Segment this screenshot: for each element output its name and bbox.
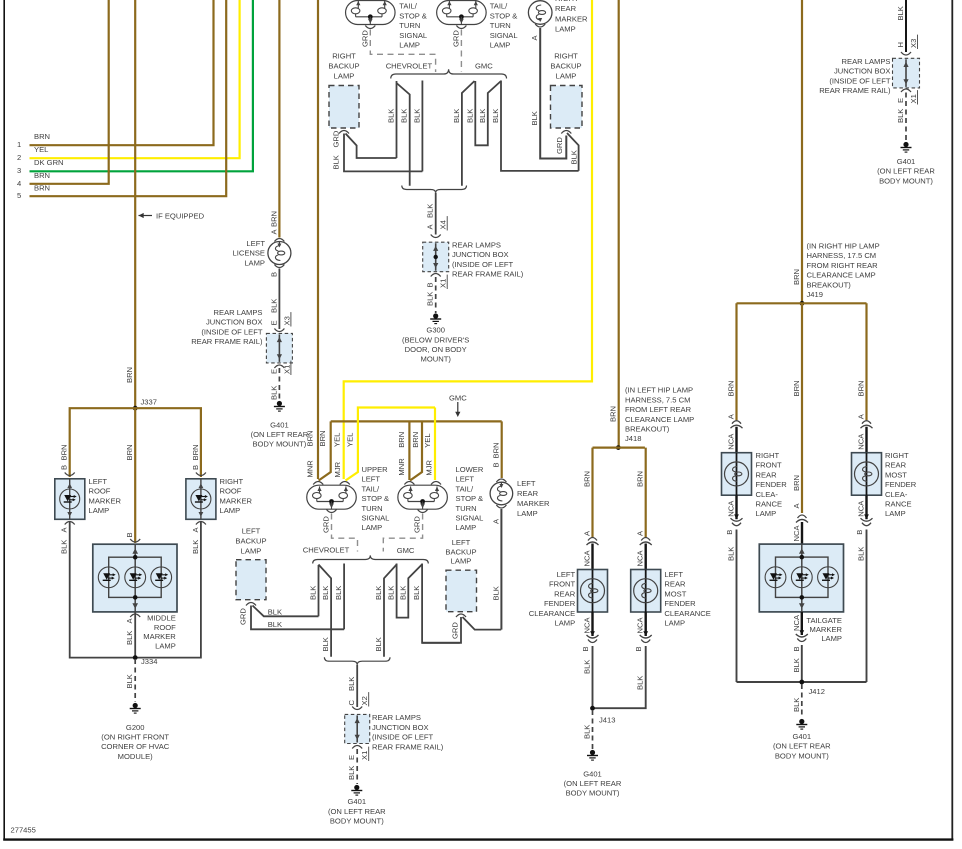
wire BLK W2b chevy lower [319,565,332,657]
wire BLK J412 bus [737,681,867,683]
wire BLK W2 chevy [397,83,410,186]
label pin A license [269,229,278,235]
label BLK W5 [465,109,474,123]
svg-text:BLK: BLK [191,540,200,554]
svg-text:BLK: BLK [583,660,592,674]
connector tailgate top [796,515,808,523]
connector junction box 3 top [352,707,362,710]
svg-text:J419: J419 [807,290,823,299]
svg-text:B: B [725,530,734,535]
svg-text:BREAKOUT): BREAKOUT) [807,280,852,289]
wire BLK left backup to W1b [253,606,319,617]
wire BRN gmc bus [331,420,502,422]
svg-text:BLK: BLK [896,109,905,123]
wire GRD left backup gmc [422,617,461,643]
label pin E X1 box 3 [347,747,369,761]
svg-text:BLK: BLK [569,150,578,164]
connector license top [274,239,284,242]
svg-text:BODY MOUNT): BODY MOUNT) [330,817,384,826]
svg-text:B: B [426,282,435,287]
svg-text:FENDER: FENDER [544,599,576,608]
svg-text:LAMP: LAMP [556,72,577,81]
connector tail lamp 2 GRD [456,26,466,29]
svg-text:X2: X2 [360,696,369,705]
wire BLK right backup to W1 [346,134,397,159]
svg-text:GRD: GRD [451,622,460,639]
svg-text:LAMP: LAMP [220,506,241,515]
svg-text:TURN: TURN [362,504,383,513]
svg-text:(IN RIGHT HIP LAMP: (IN RIGHT HIP LAMP [807,242,880,251]
right roof marker lamp label [220,477,253,515]
svg-text:YEL: YEL [34,145,48,154]
wire BRN to license lamp [278,0,280,238]
svg-text:STOP &: STOP & [399,11,427,20]
svg-text:BLK: BLK [347,677,356,691]
svg-text:RANCE: RANCE [885,500,912,509]
svg-text:MARKER: MARKER [517,499,550,508]
svg-text:E: E [896,98,905,103]
right backup lamp (gmc) box [551,86,583,129]
rear lamps junction box 3 [345,714,370,743]
svg-text:(INSIDE OF LEFT: (INSIDE OF LEFT [372,733,434,742]
label NCA below clearance 736.5 [727,500,736,517]
svg-text:NCA: NCA [636,550,645,567]
svg-text:BLK: BLK [636,676,645,690]
wire YEL upper lamp MJR 2 [346,408,436,481]
svg-text:BLK: BLK [309,586,318,600]
label BLK W1b [309,586,318,600]
svg-text:BLK: BLK [125,674,134,688]
left license lamp label [233,239,266,267]
svg-text:G401: G401 [583,769,602,778]
svg-text:X4: X4 [439,220,448,229]
tailgate marker lamp [759,544,843,612]
label BRN middle roof [125,444,134,460]
svg-text:LAMP: LAMP [334,72,355,81]
svg-text:REAR LAMPS: REAR LAMPS [214,308,263,317]
svg-text:FENDER: FENDER [664,599,696,608]
svg-text:BLK: BLK [857,547,866,561]
wire BLK W3 chevy [421,81,423,172]
wire NCA below clearance 736.5 [735,495,737,519]
label NCA below clearance 645.7 [636,617,645,634]
svg-text:BLK: BLK [792,658,801,672]
wire NCA below clearance 592.5 [591,612,593,636]
svg-text:YEL: YEL [346,433,355,447]
label pin A right rear marker [530,35,539,41]
svg-text:BLK: BLK [412,586,421,600]
svg-text:MODULE): MODULE) [118,752,153,761]
label BLK box4 wire [896,6,905,20]
wire BLK left roof down [70,521,201,658]
label GRD tail lamp 1 [360,30,369,47]
svg-text:(ON LEFT REAR: (ON LEFT REAR [251,430,309,439]
rear lamps junction box 4 [893,58,920,88]
svg-text:BODY MOUNT): BODY MOUNT) [775,751,829,760]
svg-text:GRD: GRD [555,137,564,154]
svg-text:BLK: BLK [583,725,592,739]
svg-text:BACKUP: BACKUP [235,537,266,546]
clearance lamp box 592.5 [578,570,608,613]
svg-text:A: A [269,229,278,235]
svg-text:REAR LAMPS: REAR LAMPS [842,57,891,66]
svg-text:BACKUP: BACKUP [445,547,476,556]
label BLK W2b lower [321,637,330,651]
tail/stop & turn signal lamp 1 (top left oval) [346,0,396,25]
label BLK right rear col [857,547,866,561]
label BLK W7b [412,586,421,600]
svg-text:A: A [426,224,435,230]
connector clearance top 736.5 [731,421,743,429]
svg-text:TAIL/: TAIL/ [456,484,474,493]
ground G401 bottom center [351,785,362,795]
junction J413 [590,706,615,725]
svg-text:FENDER: FENDER [885,480,917,489]
svg-text:LEFT: LEFT [362,475,381,484]
label pin H X3 box 4 [896,35,918,49]
label NCA tailgate top [792,525,801,542]
connector lower lamp MNR [404,482,414,485]
svg-text:LAMP: LAMP [490,41,511,50]
svg-text:REAR FRAME RAIL): REAR FRAME RAIL) [372,742,444,751]
wire BLK brace to junction box 3 [356,665,358,707]
svg-text:NCA: NCA [857,433,866,450]
IF EQUIPPED note [139,212,205,221]
wire left marker down [500,509,502,630]
svg-text:MNR: MNR [306,460,315,478]
left roof marker lamp label [89,477,122,515]
connector right roof top [196,473,206,476]
brace bundle top [391,69,507,78]
svg-text:LAMP: LAMP [89,506,110,515]
connector tail lamp 1 GRD [365,26,375,29]
wire BRN upper lamp MNR 2 [319,421,331,480]
label BLK right roof [191,540,200,554]
labels upper lamp wires [306,430,355,477]
svg-text:BACKUP: BACKUP [328,62,359,71]
left rear marker lamp [490,482,513,505]
label BRN right roof [191,444,200,460]
label B clearance 592.5 [581,646,590,651]
wire YEL long feed [344,0,592,479]
wire 1 BRN [30,0,214,145]
svg-text:BRN: BRN [34,171,50,180]
wire left backup gmc to marker [463,617,502,630]
svg-text:G401: G401 [897,157,916,166]
svg-text:BRN: BRN [306,430,315,446]
svg-text:LAMP: LAMP [885,509,906,518]
wire BLK dashed to G401 j412 [801,684,803,718]
svg-text:G401: G401 [270,420,289,429]
wire BRN to middle roof lamp [134,408,136,543]
label B clearance 645.7 [634,646,643,651]
wire BLK right front clearance down [736,530,738,683]
wire BLK middle roof down [134,612,136,658]
label BRN left roof [60,444,69,460]
connector clearance bottom 592.5 [587,631,599,642]
label CHEVROLET top [386,62,433,71]
svg-text:LAMP: LAMP [399,41,420,50]
svg-text:NCA: NCA [857,500,866,517]
svg-text:B: B [191,465,200,470]
label BLK horizontal 1 [268,608,282,617]
right rear marker lamp label [555,0,588,34]
svg-text:X1: X1 [909,94,918,103]
label BRN tailgate upper [792,380,801,396]
wire BLK right rear most down [866,530,868,683]
wire BLK dashed to G401 j413 [592,710,594,749]
upper left tail/stop & turn signal lamp [307,485,357,509]
label BLK tailgate col [792,658,801,672]
svg-text:2: 2 [17,153,21,162]
svg-text:STOP &: STOP & [490,11,518,20]
connector right roof bottom [196,522,206,525]
svg-text:REAR: REAR [554,589,576,598]
label BLK W4b [374,586,383,600]
svg-text:G300: G300 [426,326,445,335]
svg-text:BLK: BLK [321,586,330,600]
label GRD left backup gmc [451,622,460,639]
label BLK left rear col [636,676,645,690]
svg-text:TURN: TURN [456,504,477,513]
wire BRN left rear most clearance drop [645,448,647,538]
svg-text:LAMP: LAMP [241,547,262,556]
junction box 3 label [372,713,444,751]
connector junction box 4 top [901,52,911,55]
ground G300 label [402,326,469,364]
wire BLK W5-W6 gmc U [475,81,501,145]
wire BLK W4 gmc [462,81,475,186]
connector clearance top 592.5 [587,538,599,546]
svg-text:LAMP: LAMP [244,258,265,267]
svg-text:BRN: BRN [792,380,801,396]
svg-text:A: A [530,35,539,41]
svg-text:BLK: BLK [400,109,409,123]
wire BRN feed to J419 [801,0,803,303]
connector clearance bottom 736.5 [731,514,743,525]
wire GRD right backup to W3 [344,134,422,172]
svg-text:G401: G401 [348,797,367,806]
label BRN tailgate [792,475,801,491]
svg-text:MARKER: MARKER [555,14,588,23]
svg-text:LAMP: LAMP [451,557,472,566]
svg-text:J418: J418 [625,434,641,443]
svg-text:REAR FRAME RAIL): REAR FRAME RAIL) [819,86,891,95]
svg-text:BRN: BRN [583,471,592,487]
clearance lamp label 866.5 [885,451,917,518]
svg-text:BLK: BLK [387,109,396,123]
junction J419 [800,301,805,306]
ground G300 [430,313,441,323]
svg-text:BRN: BRN [191,444,200,460]
rear lamps junction box 1 [266,333,292,363]
wire BRN tailgate drop [801,303,803,513]
svg-text:FROM RIGHT REAR: FROM RIGHT REAR [807,261,879,270]
junction box 2 label [452,241,524,279]
svg-text:GMC: GMC [475,62,493,71]
svg-text:1: 1 [17,140,21,149]
svg-text:(ON LEFT REAR: (ON LEFT REAR [328,807,386,816]
svg-text:LAMP: LAMP [456,523,477,532]
label A clearance 736.5 [727,413,736,419]
svg-text:3: 3 [17,166,21,175]
ground G401 left rear [274,401,285,411]
label A clearance 866.5 [857,413,866,419]
connector junction box 3 bottom [352,746,362,749]
lower left tail/stop & turn signal lamp [398,485,448,509]
labels lower lamp wires [397,432,433,476]
label BRN right front clearance [727,380,736,396]
junction J418 [616,445,621,450]
svg-text:BLK: BLK [398,586,407,600]
svg-text:BACKUP: BACKUP [550,62,581,71]
label wire 5 [17,183,50,200]
label NCA below clearance 592.5 [583,617,592,634]
label BLK dashed bottom g401 [347,766,356,780]
wire BRN J418 branch [593,447,645,449]
connector junction box 4 bottom [901,89,911,92]
label B tailgate [792,646,801,651]
svg-text:MJR: MJR [424,459,433,475]
svg-text:CLEA-: CLEA- [756,490,779,499]
label NCA below clearance 866.5 [857,500,866,517]
svg-text:REAR: REAR [517,489,539,498]
label GRD lower lamp [413,516,422,533]
svg-text:TAILGATE: TAILGATE [806,616,842,625]
label BLK W6b [398,586,407,600]
svg-text:LAMP: LAMP [362,523,383,532]
right roof marker lamp [186,479,216,520]
label A clearance 592.5 [583,530,592,536]
svg-text:LAMP: LAMP [155,641,176,650]
ground G401 top right [901,142,912,152]
wire 3 DK GRN [30,0,253,171]
svg-text:CLEARANCE LAMP: CLEARANCE LAMP [807,271,876,280]
svg-text:MOST: MOST [664,589,686,598]
label A left roof [60,527,69,533]
svg-text:B: B [634,646,643,651]
svg-text:(INSIDE OF LEFT: (INSIDE OF LEFT [452,260,514,269]
label BLK W2b [321,586,330,600]
junction J337 [133,398,157,411]
label BLK right front col [727,547,736,561]
svg-text:DOOR, ON BODY: DOOR, ON BODY [405,345,467,354]
label A right roof [191,527,200,533]
wire BRN J419 branch [737,302,867,304]
label wire 2 [17,145,48,162]
svg-text:UPPER: UPPER [362,465,389,474]
wire BRN bus to left marker [501,421,503,478]
label BRN J337 wire [125,367,134,383]
svg-text:BODY MOUNT): BODY MOUNT) [879,176,933,185]
svg-text:BLK: BLK [478,109,487,123]
svg-text:REAR: REAR [756,470,778,479]
svg-text:B: B [60,465,69,470]
svg-text:B: B [581,646,590,651]
svg-text:CHEVROLET: CHEVROLET [303,545,350,554]
svg-text:BLK: BLK [268,608,282,617]
svg-text:4: 4 [17,179,21,188]
label BRN J419 feed [792,269,801,285]
label BLK W3 [412,109,421,123]
wire YEL lower lamp MJR [434,408,436,481]
svg-text:LEFT: LEFT [246,239,265,248]
svg-text:TURN: TURN [490,21,511,30]
svg-text:BLK: BLK [347,766,356,780]
svg-text:MOUNT): MOUNT) [421,355,452,364]
label pin C X2 [347,692,369,706]
svg-text:X1: X1 [439,279,448,288]
svg-text:RIGHT: RIGHT [554,52,578,61]
svg-text:J337: J337 [141,398,157,407]
svg-text:B: B [855,530,864,535]
wire right rear marker down [540,28,566,159]
ground G401 j412 label [773,732,831,760]
clearance lamp box 645.7 [631,570,661,613]
clearance lamp label 645.7 [664,570,710,628]
svg-text:B: B [492,462,501,467]
wire BRN lower lamp MNR 2 [410,421,422,480]
svg-text:J334: J334 [141,657,157,666]
svg-text:(ON RIGHT FRONT: (ON RIGHT FRONT [101,733,169,742]
svg-text:J412: J412 [809,687,825,696]
connector right rear marker bottom [535,24,545,27]
svg-text:TAIL/: TAIL/ [362,484,380,493]
svg-text:ROOF: ROOF [89,487,111,496]
svg-text:ROOF: ROOF [220,487,242,496]
label BLK license [269,299,278,313]
svg-text:A: A [792,503,801,509]
svg-text:BRN: BRN [318,430,327,446]
connector lower lamp MJR [431,482,441,485]
svg-text:RIGHT: RIGHT [756,451,780,460]
svg-text:LEFT: LEFT [517,479,536,488]
svg-text:GMC: GMC [449,393,467,402]
label GRD right backup gmc [555,137,564,154]
svg-text:(IN LEFT HIP LAMP: (IN LEFT HIP LAMP [625,386,693,395]
wire BLK W7b gmc lower [422,564,460,643]
lower left lamp label [456,465,484,532]
clearance lamp box 736.5 [722,453,752,496]
svg-text:(INSIDE OF LEFT: (INSIDE OF LEFT [201,327,263,336]
label pin B license [269,272,278,277]
label wire 3 [17,158,64,175]
connector right backup gmc pin [561,131,571,134]
svg-text:J413: J413 [599,716,615,725]
svg-text:RIGHT: RIGHT [555,0,579,3]
svg-text:CHEVROLET: CHEVROLET [386,62,433,71]
svg-text:(ON LEFT REAR: (ON LEFT REAR [773,742,831,751]
label BLK junction box 2 wire [426,204,435,218]
upper left lamp label [362,465,390,532]
svg-text:NCA: NCA [583,550,592,567]
svg-text:ROOF: ROOF [154,623,176,632]
svg-text:FRONT: FRONT [756,461,783,470]
brace bundle to junction box 3 [324,657,390,665]
ground G401 j412 [796,719,807,729]
connector junction box 2 top [431,235,441,238]
label NCA above clearance 645.7 [636,550,645,567]
svg-text:(INSIDE OF LEFT: (INSIDE OF LEFT [829,76,891,85]
svg-text:BRN: BRN [125,367,134,383]
svg-text:LAMP: LAMP [517,509,538,518]
svg-text:X1: X1 [282,365,291,374]
ground G200 label [101,723,170,761]
svg-text:MARKER: MARKER [143,632,176,641]
wire GRD dashed upper lamp [332,514,358,552]
label BRN J418 feed [609,406,618,422]
label B middle roof [125,532,134,537]
